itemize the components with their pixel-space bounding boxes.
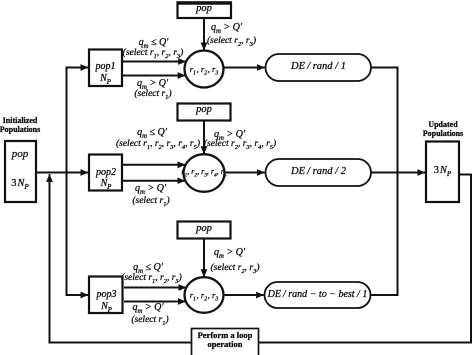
text DE rand 1 (291, 61, 346, 72)
label select r2r3 top1 (207, 36, 256, 46)
wire DE rand 2 to updated box (371, 172, 425, 174)
text pop top1 (196, 3, 212, 14)
label select r2r3 top3 (211, 263, 260, 273)
label select r1r2r3 row3 (121, 273, 182, 283)
label select r1 row1 (134, 89, 171, 99)
label select r1r2r3 row1 (123, 48, 184, 58)
label qm>Q row1 lower (137, 78, 168, 89)
wire pop1 to selector circle upper (122, 61, 186, 63)
text pop2 (96, 167, 116, 178)
stadium DE rand 2 (266, 159, 372, 186)
box updated 3Np (426, 142, 459, 203)
wire loop feedback: updated box right, down, left, up into main (50, 174, 472, 342)
label select r1..r5 row2 (116, 139, 200, 149)
label qm>Q top1 (211, 22, 242, 33)
label select r2..r5 top2 (204, 139, 276, 149)
box pop top 3 (178, 222, 231, 239)
wire circle2 to DE rand 2 (225, 172, 265, 174)
wire pop2 to circle2 upper (123, 164, 185, 166)
text DE rand to best 1 (268, 289, 368, 300)
text pop in init box (12, 148, 29, 160)
text DE rand 2 (291, 166, 346, 177)
text pop3 (97, 289, 117, 300)
label select r1 row2 (132, 196, 169, 206)
wire pop box 2 down to circle 2 (203, 121, 205, 154)
text Np of pop1 (100, 73, 111, 84)
wire trunk vertical with branches to pop1 and pop3 (67, 68, 89, 296)
node circle 2 (184, 154, 225, 192)
text circle1 r1r2r3 (190, 64, 219, 74)
stadium DE rand 1 (266, 54, 372, 81)
label initialized populations (0, 117, 40, 134)
label select r1 row3 (131, 315, 168, 325)
text perform a loop operation (198, 331, 253, 350)
label qm<=Q row2 (137, 127, 167, 138)
text 3Np in init box (11, 178, 29, 189)
node circle 3 (185, 277, 224, 313)
wire circle3 to DE rand-to-best (224, 294, 264, 296)
label updated populations (423, 121, 463, 138)
label qm>Q row3 lower (132, 302, 163, 313)
wire pop3 to circle3 lower (124, 301, 185, 303)
box pop top 2 (178, 104, 231, 121)
node circle 1 (185, 51, 224, 88)
wire pop box 3 down to circle 3 (203, 239, 205, 277)
box pop1 (89, 50, 122, 87)
box pop3 (89, 277, 123, 314)
text pop1 (96, 61, 116, 72)
text circle2 r1..r5 (181, 167, 226, 176)
wire DE rand-to-best output right and up (371, 173, 398, 295)
label qm>Q row2 lower (135, 183, 166, 194)
wire pop1 to selector circle lower (122, 75, 185, 77)
box pop2 (89, 155, 122, 191)
box initialized pop 3Np (5, 141, 36, 202)
wire circle1 to DE rand 1 (224, 67, 265, 69)
box pop top 1 (178, 3, 232, 19)
wire main: init box to pop2 (36, 172, 88, 174)
thick top edge of pop top 1 (177, 1, 233, 4)
wire DE rand 1 output right and down (371, 68, 398, 173)
text circle3 r1r2r3 (190, 290, 219, 300)
wire pop3 to circle3 upper (124, 287, 186, 289)
text pop top3 (196, 223, 212, 234)
label qm>Q top3 (214, 247, 245, 258)
text 3Np updated (434, 165, 452, 176)
box perform a loop operation (192, 329, 259, 355)
label qm>Q top2 (214, 129, 245, 140)
text pop top2 (196, 104, 212, 115)
label qm<=Q row3 (133, 262, 163, 273)
wire pop box 1 down to circle 1 (203, 18, 205, 50)
text Np of pop2 (101, 178, 112, 189)
label qm<=Q row1 (139, 37, 169, 48)
stadium DE rand-to-best 1 (265, 282, 371, 308)
wire pop2 to circle2 lower (123, 180, 185, 182)
text Np of pop3 (101, 301, 112, 312)
